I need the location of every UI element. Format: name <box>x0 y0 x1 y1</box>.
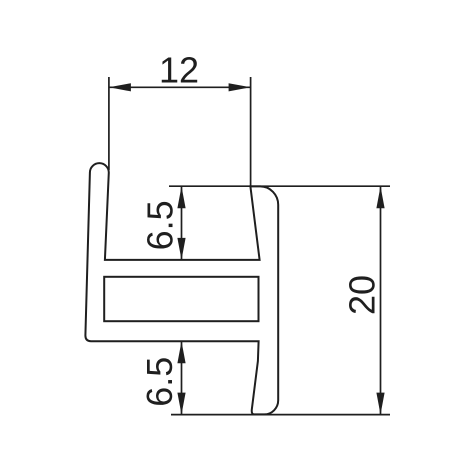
profile outline (extrusion cross-section) <box>85 163 278 414</box>
dimension 20: dimension line <box>380 186 382 414</box>
dimension 6.5 bottom: up arrowhead <box>177 341 185 363</box>
dimension 12: left arrowhead <box>109 83 131 91</box>
dimension 20: down arrowhead <box>376 393 384 415</box>
svg-text:6.5: 6.5 <box>139 357 180 407</box>
svg-text:12: 12 <box>159 50 199 91</box>
hollow chamber <box>104 277 258 321</box>
dimension 20: up arrowhead <box>376 186 384 208</box>
dimension 6.5 bottom: dimension line <box>181 341 183 414</box>
dimension 6.5 top: dimension line <box>181 186 183 260</box>
svg-text:6.5: 6.5 <box>139 200 180 250</box>
dimension 12: dimension line <box>109 86 251 88</box>
top extension line (wall top, shared by 6.5 and 20) <box>169 185 390 187</box>
dimension 12: right arrowhead <box>229 83 251 91</box>
dimension 12: extension line left <box>108 77 110 170</box>
dimension 12: extension line right <box>250 77 252 186</box>
dimension 6.5 top: up arrowhead <box>177 186 185 208</box>
dimension 6.5 top: down arrowhead <box>177 238 185 260</box>
svg-text:20: 20 <box>342 275 383 315</box>
bottom extension line (wall bottom, shared by 6.5 and 20) <box>171 414 390 416</box>
dimension 6.5 bottom: down arrowhead <box>177 393 185 415</box>
